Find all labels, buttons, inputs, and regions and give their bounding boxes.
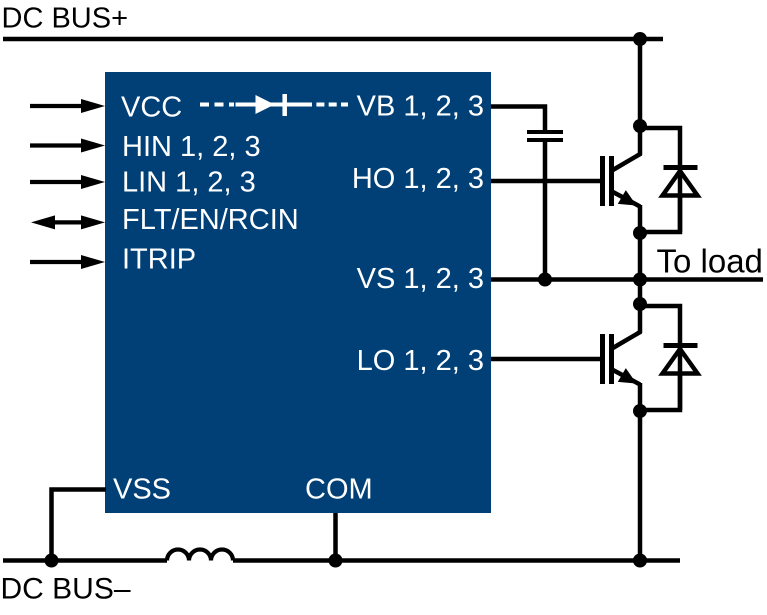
bidirectional arrow FLT/EN/RCIN (31, 215, 105, 229)
wire top rail to high-side collector (638, 39, 643, 155)
wire VS node to low-side collector (638, 280, 643, 334)
wire cap bottom to VS node (543, 140, 548, 280)
transistor Q2 low-side IGBT (603, 332, 642, 385)
svg-text:VS 1, 2, 3: VS 1, 2, 3 (357, 263, 484, 295)
svg-text:DC BUS+: DC BUS+ (2, 3, 129, 35)
wire COM pin to DC bus- (333, 513, 338, 561)
junction VS load node (633, 273, 647, 287)
svg-text:VCC: VCC (121, 92, 182, 124)
svg-text:To load: To load (657, 243, 763, 280)
wire VSS pin to DC bus- (52, 490, 107, 561)
bootstrap capacitor C1 (527, 132, 563, 140)
svg-text:VSS: VSS (113, 474, 171, 506)
junction VSS node (45, 554, 59, 568)
junction low emitter node (633, 404, 647, 418)
junction low collector node (633, 297, 647, 311)
wire LO pin to low-side gate (491, 357, 600, 362)
junction bottom rail right (633, 554, 647, 568)
junction high emitter node (633, 226, 647, 240)
bootstrap diode D1 (dashed, internal) (200, 94, 348, 116)
junction top rail (633, 32, 647, 46)
input arrow ITRIP (30, 255, 105, 269)
wire DC BUS+ top rail (3, 37, 663, 42)
wire HO pin to high-side gate (491, 179, 600, 184)
svg-text:LO 1, 2, 3: LO 1, 2, 3 (357, 345, 484, 377)
svg-text:HIN 1, 2, 3: HIN 1, 2, 3 (122, 131, 261, 163)
input arrow VCC (30, 99, 105, 113)
wire VB pin to bootstrap cap (491, 107, 545, 133)
junction cap VS node (538, 273, 552, 287)
wire high-side emitter (638, 205, 643, 280)
IC body U1 (gate driver) (105, 72, 491, 513)
svg-text:LIN 1, 2, 3: LIN 1, 2, 3 (122, 167, 256, 199)
svg-text:HO 1, 2, 3: HO 1, 2, 3 (352, 163, 484, 195)
svg-text:DC BUS–: DC BUS– (1, 573, 131, 606)
svg-text:FLT/EN/RCIN: FLT/EN/RCIN (122, 204, 299, 236)
svg-text:VB 1, 2, 3: VB 1, 2, 3 (357, 91, 484, 123)
wire DC BUS- rail left (3, 558, 167, 563)
diode D2 high-side freewheel (640, 128, 698, 232)
junction high collector node (633, 119, 647, 133)
inductor L1 (167, 550, 233, 561)
wire VS pin to load (491, 277, 763, 282)
wire DC BUS- rail right (233, 558, 680, 563)
input arrow HIN (30, 139, 105, 153)
input arrow LIN (30, 175, 105, 189)
wire low-side emitter to DC bus- (638, 383, 643, 561)
transistor Q1 high-side IGBT (603, 154, 642, 207)
junction COM node (329, 554, 343, 568)
diode D3 low-side freewheel (640, 306, 698, 410)
svg-text:ITRIP: ITRIP (122, 243, 196, 275)
svg-text:COM: COM (305, 474, 373, 506)
